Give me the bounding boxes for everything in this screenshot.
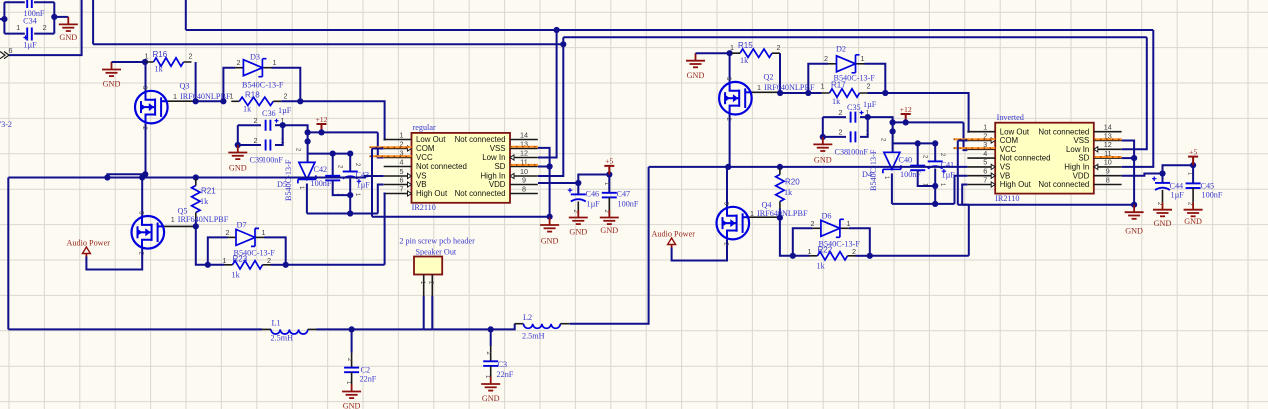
capacitor C3 22nF (483, 361, 498, 366)
svg-text:C34: C34 (23, 17, 37, 26)
svg-text:L2: L2 (523, 313, 532, 322)
capacitor C40 100nF (910, 166, 925, 171)
svg-text:VSS: VSS (1074, 136, 1090, 145)
wire right VS switch (649, 166, 968, 168)
wire right SD stub (1122, 157, 1134, 159)
wire Audio Power right (672, 239, 727, 260)
svg-text:22nF: 22nF (497, 370, 514, 379)
svg-text:Inverted: Inverted (997, 113, 1024, 122)
svg-text:VDD: VDD (1073, 171, 1090, 180)
wire R15.2 down (779, 53, 781, 93)
wire gate to D6 node (780, 218, 793, 256)
power +12 right (901, 114, 911, 123)
svg-text:B540C-13-F: B540C-13-F (284, 159, 293, 201)
wire rail A (307, 213, 378, 215)
svg-text:+5: +5 (605, 157, 613, 166)
diode D6 (821, 219, 844, 237)
junction C39 gnd node (235, 142, 241, 148)
svg-text:VB: VB (416, 180, 427, 189)
capacitor C3 lead top (490, 329, 492, 346)
svg-text:2.5mH: 2.5mH (271, 334, 294, 343)
pin lead D3 anode (235, 67, 243, 69)
svg-text:1: 1 (983, 123, 987, 132)
pin lead D7 cathode (256, 236, 264, 238)
svg-text:SD: SD (1078, 154, 1089, 163)
svg-text:Not connected: Not connected (1000, 154, 1051, 163)
junction right SD tap (1131, 155, 1137, 161)
svg-text:GND: GND (343, 402, 361, 409)
wire +12 rail right (893, 121, 964, 123)
svg-text:B540C-13-F: B540C-13-F (242, 80, 284, 89)
svg-text:R18: R18 (245, 91, 260, 100)
ground VSS left (540, 218, 559, 232)
svg-text:VCC: VCC (416, 153, 433, 162)
junction C41 top (932, 140, 938, 146)
wire bus to speaker2 (424, 328, 433, 330)
port 6 arrow (0, 52, 9, 59)
wire Q3 gate stub (168, 100, 196, 102)
svg-text:Not connected: Not connected (1038, 127, 1089, 136)
svg-text:D3: D3 (250, 53, 260, 62)
svg-text:1: 1 (145, 52, 149, 61)
resistor R20 (776, 175, 784, 202)
wire +12 rail (308, 131, 378, 133)
svg-text:Low Out: Low Out (1000, 127, 1030, 136)
pin lead D6 anode (812, 227, 821, 229)
wire Q5 gate stub (164, 225, 196, 227)
svg-text:R15: R15 (738, 41, 753, 50)
svg-text:1: 1 (171, 215, 175, 224)
wire SD stub (538, 166, 550, 168)
svg-text:1k: 1k (784, 188, 793, 197)
junction D3-R18 left node (220, 98, 226, 104)
pin 1 speaker (423, 275, 425, 297)
wire GND to R15 (696, 52, 730, 54)
wire pin10 riser (538, 44, 563, 176)
svg-text:6: 6 (400, 175, 404, 184)
wire net C riser (562, 37, 564, 44)
svg-text:14: 14 (520, 130, 528, 139)
svg-text:2: 2 (226, 228, 230, 237)
wire Q4 drain (726, 167, 728, 207)
wire net A horizontal (186, 29, 1154, 31)
svg-text:1µF: 1µF (357, 181, 371, 190)
ground VSS right (1125, 205, 1144, 219)
junction net A x556 (554, 27, 560, 33)
capacitor C39 (266, 140, 271, 151)
wire port6 (9, 0, 82, 55)
junction C34 right (51, 14, 57, 20)
svg-text:GND: GND (482, 394, 500, 403)
wire to LowOut riser (300, 101, 384, 139)
junction rail A C43 (347, 210, 353, 216)
wire C39 left (238, 144, 261, 146)
svg-text:14: 14 (1104, 123, 1112, 132)
orange net VCC right (954, 147, 996, 149)
svg-text:GND: GND (569, 228, 587, 237)
orange net SD right (1094, 156, 1122, 158)
svg-text:2: 2 (777, 43, 781, 52)
wire gnd rail right (958, 204, 1134, 206)
junction gnd rail right (1131, 202, 1137, 208)
junction Q5 gate node (193, 223, 199, 229)
svg-text:C36: C36 (262, 109, 276, 118)
svg-text:1: 1 (757, 83, 761, 92)
svg-text:GND: GND (600, 226, 618, 235)
svg-text:Not connected: Not connected (416, 162, 467, 171)
wire Q2 gate stub (752, 91, 780, 93)
svg-text:2.5mH: 2.5mH (522, 332, 545, 341)
svg-text:Speaker Out: Speaker Out (416, 247, 457, 256)
capacitor C44 lead bottom (1162, 190, 1164, 202)
svg-text:1µF: 1µF (23, 41, 37, 50)
wire D7 right riser (264, 237, 286, 264)
svg-text:100nF: 100nF (262, 156, 283, 165)
svg-text:Low Out: Low Out (416, 135, 446, 144)
svg-text:1µF: 1µF (1171, 191, 1185, 200)
svg-text:High In: High In (1064, 163, 1089, 172)
junction C3 bus (488, 326, 494, 332)
svg-text:2: 2 (254, 116, 258, 125)
ground C44 (1153, 202, 1172, 216)
wire C35 left (823, 116, 846, 118)
wire VSS right (538, 148, 550, 217)
wire R20 bottom (779, 209, 781, 218)
svg-text:R23: R23 (233, 255, 248, 264)
svg-text:1k: 1k (155, 65, 164, 74)
wire C34 left rail (0, 18, 4, 20)
junction C40 top (915, 140, 921, 146)
junction C46 top (575, 180, 581, 186)
capacitor C36 (266, 119, 279, 131)
wire C42 bottom lead (333, 180, 351, 195)
svg-text:D7: D7 (237, 221, 247, 230)
wire net C horizontal (563, 36, 1147, 38)
wire right VSS (1122, 141, 1134, 205)
wire pin12 riser (538, 30, 557, 158)
orange net VSS (510, 146, 538, 148)
svg-text:VS: VS (1000, 163, 1011, 172)
wire C41 bottom lead (934, 169, 936, 204)
resistor R16 (154, 58, 184, 66)
pin lead D6 cathode (841, 227, 849, 229)
wire R22 to HighOut (870, 255, 969, 257)
wire bottom bus (8, 328, 262, 330)
svg-text:GND: GND (229, 164, 247, 173)
svg-text:6: 6 (9, 46, 13, 55)
svg-text:1: 1 (273, 58, 277, 67)
svg-text:2: 2 (254, 136, 258, 145)
svg-text:C3: C3 (498, 360, 508, 369)
svg-text:GND: GND (541, 237, 559, 246)
svg-text:5: 5 (983, 158, 987, 167)
svg-text:12: 12 (520, 148, 528, 157)
ground C46 (569, 210, 588, 224)
svg-text:C44: C44 (1170, 182, 1184, 191)
svg-text:R17: R17 (831, 81, 846, 90)
junction D3-R18 right node (297, 98, 303, 104)
svg-text:2: 2 (811, 219, 815, 228)
ground near R15 (686, 53, 705, 67)
pin lead D2 anode (828, 63, 837, 65)
wire VB riser right (955, 176, 968, 204)
svg-text:1: 1 (230, 92, 234, 101)
svg-text:2: 2 (189, 52, 193, 61)
wire HighOut riser (384, 194, 385, 265)
wire C43 bottom lead (349, 179, 351, 214)
wire C36 left (238, 124, 261, 126)
junction Q5 drain riser (139, 174, 145, 180)
wire C34 right vertical (53, 2, 55, 33)
capacitor C34a 100nF (27, 0, 32, 8)
capacitor C34b 1uF (24, 28, 32, 41)
wire C39 right (275, 125, 283, 145)
ground C3 (481, 377, 500, 391)
svg-text:regular: regular (413, 123, 436, 132)
svg-text:C47: C47 (617, 190, 631, 199)
wire to right LowOut (885, 93, 968, 132)
svg-text:2 pin screw pcb header: 2 pin screw pcb header (399, 236, 475, 245)
wire C42 top lead (332, 154, 334, 176)
svg-text:1: 1 (400, 130, 404, 139)
wire C35 to +12 rail (868, 117, 893, 122)
transistor Q5 (132, 216, 165, 249)
transistor Q3 (135, 91, 168, 124)
power +12 left (317, 124, 327, 133)
svg-text:4: 4 (400, 157, 404, 166)
svg-text:+12: +12 (315, 115, 327, 124)
wire C34 bottom rail (4, 33, 24, 35)
svg-text:Q3: Q3 (180, 82, 190, 91)
junction C35 right (865, 114, 871, 120)
svg-text:Audio Power: Audio Power (67, 238, 111, 247)
svg-text:L1: L1 (272, 319, 281, 328)
wire R16.2 down (195, 62, 197, 101)
svg-text:High Out: High Out (1000, 180, 1032, 189)
svg-text:C42: C42 (314, 165, 328, 174)
svg-text:2: 2 (237, 58, 241, 67)
op-amp U1 IR2110 regular (412, 133, 511, 203)
svg-text:SD: SD (495, 162, 506, 171)
junction Q3 gate node (193, 98, 199, 104)
junction D2-R17 left (805, 90, 811, 96)
capacitor C43 1uF (343, 172, 362, 184)
wire VS switch main (107, 176, 383, 178)
svg-text:IR2110: IR2110 (995, 194, 1019, 203)
junction R15 pin1 (727, 50, 733, 56)
wire bus after L1 (317, 328, 424, 330)
resistor R23 (233, 261, 263, 269)
junction D7-R23 right (283, 262, 289, 268)
svg-text:Low In: Low In (1066, 145, 1089, 154)
svg-text:1: 1 (847, 219, 851, 228)
svg-text:High Out: High Out (416, 189, 448, 198)
wire D4 anode riser (892, 122, 894, 152)
ground C45 (1184, 202, 1203, 216)
wire C40 top lead (917, 143, 919, 165)
wire net B vertical (92, 0, 94, 44)
wire D6 left riser (793, 228, 813, 256)
wire VDD pin9 (538, 182, 578, 184)
svg-text:GND: GND (59, 33, 77, 42)
wire C47 bottom lead (608, 197, 610, 210)
svg-text:100nF: 100nF (618, 200, 639, 209)
wire left vertical (7, 178, 9, 330)
wire R18 right link (281, 100, 300, 102)
svg-text:+5: +5 (1189, 147, 1197, 156)
wire net A vertical (185, 0, 187, 30)
junction +5 right (1190, 162, 1196, 168)
svg-text:9: 9 (522, 175, 526, 184)
inductor L1 (262, 328, 271, 330)
capacitor C45 100nF (1186, 183, 1201, 188)
capacitor C2 lead bottom (351, 372, 353, 384)
svg-text:8: 8 (522, 184, 526, 193)
capacitor C2 22nF (344, 368, 359, 373)
wire VB link right (962, 204, 969, 206)
svg-text:GND: GND (814, 156, 832, 165)
junction Q2 source switch (725, 164, 731, 170)
svg-text:8: 8 (1106, 175, 1110, 184)
orange net SD (510, 164, 538, 166)
svg-text:IRF640NLPBF: IRF640NLPBF (178, 215, 229, 224)
capacitor C3 lead bottom (490, 366, 492, 377)
junction R16 pin1 (142, 59, 148, 65)
ground C35C38 (813, 137, 832, 151)
wire C35-C38 left rail (822, 117, 824, 137)
svg-text:1k: 1k (243, 105, 252, 114)
wire VS switch jog (107, 174, 145, 177)
svg-text:4: 4 (983, 149, 987, 158)
junction D5 node (305, 138, 311, 144)
wire R23 left link (208, 264, 225, 266)
op-amp U2 IR2110 inverted (995, 123, 1094, 194)
wire C34 to GND (54, 16, 68, 18)
svg-text:GND: GND (1184, 217, 1202, 226)
svg-text:C2: C2 (361, 366, 371, 375)
wire L2 to right node (570, 167, 649, 324)
transistor Q2 (719, 82, 752, 115)
wire caps top rail (308, 153, 351, 155)
wire speaker pin2 (431, 296, 433, 329)
wire C41 top lead (934, 143, 936, 161)
resistor R17 (830, 89, 860, 97)
header J1 2 pin screw (414, 257, 442, 275)
junction caps bottom right (932, 183, 938, 189)
wire COM riser (371, 149, 373, 217)
svg-text:1: 1 (173, 92, 177, 101)
wire C43 top lead (349, 154, 351, 172)
junction +5 node (606, 171, 612, 177)
wire Q4 gate stub (749, 216, 780, 218)
junction Q4 gate node (777, 215, 783, 221)
wire R17 left link (808, 92, 821, 94)
wire bus to C3 (432, 328, 490, 330)
svg-text:1k: 1k (200, 197, 209, 206)
svg-text:C35: C35 (847, 103, 861, 112)
svg-text:1k: 1k (832, 97, 841, 106)
transistor Q4 (717, 207, 750, 240)
svg-text:10: 10 (1104, 158, 1112, 167)
svg-text:2: 2 (267, 256, 271, 265)
junction C44 top (1159, 170, 1165, 176)
junction C36 right (280, 122, 286, 128)
ground C34 (59, 17, 78, 31)
wire D5 anode riser (307, 132, 309, 162)
ground C36C39 (228, 145, 247, 159)
wire C34 frame (4, 1, 24, 3)
svg-text:Audio Power: Audio Power (652, 229, 696, 238)
wire C38 right (860, 117, 868, 137)
svg-text:C40: C40 (899, 156, 913, 165)
junction Q2 gate node (777, 90, 783, 96)
junction gnd rail (547, 214, 553, 220)
junction C34 left (1, 16, 7, 22)
diode D7 (236, 228, 259, 246)
junction R20 top (777, 164, 783, 170)
svg-text:6: 6 (983, 167, 987, 176)
svg-text:Q2: Q2 (764, 73, 774, 82)
junction net B x563 (560, 41, 566, 47)
wire Q3 drain (145, 62, 147, 91)
svg-text:COM: COM (416, 144, 434, 153)
svg-text:C45: C45 (1201, 182, 1215, 191)
capacitor C46 1uF (568, 188, 586, 202)
wire D5 cathode down (306, 184, 308, 214)
wire right VDD (1122, 174, 1163, 176)
svg-text:GND: GND (103, 80, 121, 89)
wire caps top rail right (893, 142, 936, 144)
wire C46 bottom lead (577, 202, 579, 211)
junction D6-R22 right (867, 253, 873, 259)
svg-text:100nF: 100nF (311, 179, 332, 188)
capacitor C38 (851, 131, 856, 142)
wire VS switch into pin5 (8, 177, 107, 179)
svg-text:C41: C41 (941, 161, 955, 170)
wire D6 right riser (849, 228, 870, 256)
wire R23 to HighOut (286, 264, 385, 266)
svg-text:73-2: 73-2 (0, 120, 12, 129)
wire right pin10 (1122, 30, 1154, 167)
wire C38 left (823, 136, 846, 138)
wire gate to D2 node (780, 92, 808, 94)
wire gate node to D3 node (196, 100, 224, 102)
svg-text:1: 1 (223, 256, 227, 265)
svg-text:VDD: VDD (489, 180, 506, 189)
wire gate to D7 node (196, 226, 208, 264)
wire Q2 drain (729, 53, 731, 82)
svg-text:2: 2 (824, 54, 828, 63)
junction R21 top (193, 174, 199, 180)
wire C44 top lead (1162, 174, 1164, 183)
svg-text:Not connected: Not connected (1038, 180, 1089, 189)
wire C34 left vertical (3, 2, 5, 33)
junction +12 stem (318, 129, 324, 135)
wire Q5 drain (141, 178, 143, 217)
svg-text:1: 1 (730, 43, 734, 52)
svg-text:1: 1 (808, 247, 812, 256)
junction switch jog right (142, 171, 148, 177)
svg-text:2: 2 (43, 23, 47, 32)
wire HighOut riser right (962, 185, 967, 205)
capacitor C35 (851, 111, 864, 123)
wire rail A right (892, 203, 955, 205)
svg-text:1µF: 1µF (278, 106, 292, 115)
wire D7 left riser (208, 237, 228, 264)
wire C36 to +12 rail (283, 125, 308, 132)
diode D2 (837, 55, 860, 73)
pin 2 speaker (431, 275, 433, 297)
